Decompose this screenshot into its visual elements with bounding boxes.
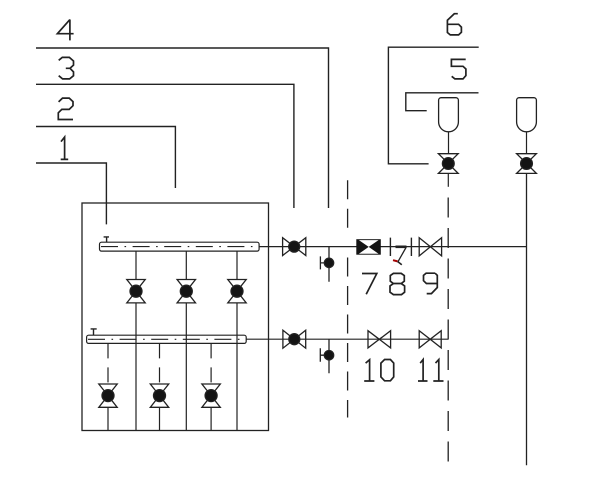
label 5 digit [451, 59, 466, 79]
spade 8 handle [398, 247, 406, 261]
label 11 digits [418, 360, 444, 382]
spade 8 flag black [398, 262, 402, 265]
right funnel cup [517, 98, 537, 132]
valve 7 blind valve body [356, 239, 381, 255]
lower branch instrument [320, 339, 333, 373]
leader line 4 [36, 48, 329, 208]
upper drop valve b [177, 280, 195, 303]
spade 8 blind plate [396, 246, 407, 249]
upper drop wire c [236, 251, 238, 430]
valve 11 gate valve [419, 331, 441, 348]
lower drop wire b [159, 343, 161, 384]
funnel 5 cup [439, 98, 459, 132]
lower drop valve b [150, 384, 168, 407]
dashed boundary line left lower [347, 258, 349, 418]
spade 8 flag red [393, 260, 398, 261]
right funnel valve [517, 154, 537, 174]
label 4 digit [57, 20, 73, 41]
upper drop valve c [228, 280, 246, 303]
label 9 digit [424, 273, 438, 293]
lower pipe globe valve [283, 330, 306, 348]
label 7 digit [362, 274, 377, 295]
upper branch instrument [320, 247, 333, 282]
lower drop wire c [210, 343, 212, 384]
lower drop wire a [107, 343, 109, 384]
leader line 3 [36, 84, 294, 208]
lower manifold vent [91, 329, 97, 335]
equipment box [82, 203, 269, 431]
upper manifold header [100, 242, 260, 251]
upper drop valve a [127, 280, 145, 303]
lower drop valve c [202, 384, 220, 407]
upper pipe globe valve [283, 238, 306, 256]
right funnel stem [526, 132, 528, 154]
funnel valve 6 outlet stub [447, 173, 449, 186]
lower manifold header [87, 335, 247, 343]
upper manifold centerline [101, 246, 258, 248]
spade 8 flanges [390, 238, 411, 256]
funnel 5 stem [448, 132, 450, 154]
label 10 digits [364, 360, 394, 382]
right downcomer wire [526, 173, 528, 465]
dashed boundary line right [447, 198, 449, 466]
leader line 6 [388, 47, 478, 164]
lower drop valve a [99, 384, 117, 407]
valve 9 gate valve [419, 238, 441, 256]
leader line 2 [36, 127, 175, 189]
label 2 digit [58, 98, 73, 119]
upper drop wire b [185, 251, 187, 430]
upper pipe [259, 246, 527, 248]
leader line 5 [406, 93, 479, 111]
funnel valve 6 [438, 154, 458, 174]
label 1 digit [61, 137, 68, 159]
label 6 digit [447, 14, 461, 35]
upper manifold vent [104, 237, 109, 242]
label 8 digit [390, 273, 405, 294]
lower manifold centerline [88, 338, 245, 340]
leader line 1 [36, 163, 106, 224]
dashed boundary line left upper [347, 180, 349, 228]
upper drop wire a [135, 251, 137, 430]
lower pipe [246, 338, 448, 340]
valve 10 gate valve [368, 331, 391, 348]
label 3 digit [59, 57, 74, 79]
